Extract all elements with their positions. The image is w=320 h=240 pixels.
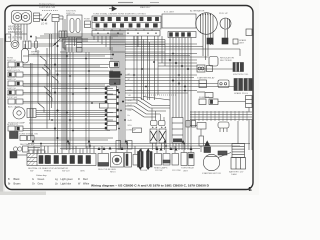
junction dot bbox=[66, 112, 68, 114]
strip drop wires bbox=[93, 36, 95, 40]
junction dot bbox=[69, 75, 71, 77]
multi connector box mid bbox=[172, 118, 183, 144]
wire bbox=[125, 77, 194, 79]
wire bbox=[23, 74, 113, 76]
wire bbox=[52, 88, 113, 90]
bus wire bbox=[36, 37, 113, 39]
wire bbox=[55, 70, 113, 72]
wire bbox=[36, 112, 113, 114]
svg-text:REGULATOR/: REGULATOR/ bbox=[220, 57, 234, 60]
row2 connector a bbox=[199, 80, 207, 88]
fuse strip b bbox=[128, 141, 133, 150]
wire bbox=[197, 91, 205, 93]
bus wire bbox=[125, 46, 203, 48]
left row connector y81 bbox=[8, 81, 15, 86]
wire vertical bbox=[49, 34, 51, 120]
wire vertical bbox=[72, 52, 74, 150]
left row connector y126 bbox=[8, 126, 15, 131]
svg-text:SW: SW bbox=[30, 171, 33, 173]
svg-text:SWITCH: SWITCH bbox=[66, 13, 75, 15]
fuse holder box bbox=[59, 31, 67, 38]
junction dot bbox=[54, 43, 56, 45]
junction dot bbox=[51, 119, 53, 121]
svg-text:IGNITION COIL: IGNITION COIL bbox=[233, 74, 249, 76]
battery case bbox=[231, 158, 246, 170]
small dark box under alternator bbox=[207, 38, 213, 44]
connector strip long bbox=[27, 154, 96, 166]
main fuse bbox=[199, 136, 204, 146]
left row connector y90 bbox=[8, 90, 15, 95]
oil pressure switch box bbox=[199, 99, 206, 105]
svg-text:14AH: 14AH bbox=[231, 173, 237, 176]
wire bbox=[23, 83, 113, 85]
diagonal wire bbox=[143, 97, 170, 101]
junction dot bbox=[169, 59, 171, 61]
box pair n4 bbox=[181, 153, 187, 166]
box rect sw bbox=[98, 154, 109, 167]
small box near border bbox=[246, 29, 252, 36]
rear drop wires bbox=[169, 38, 171, 59]
band cells dark row2 bbox=[96, 24, 99, 28]
strip cells bbox=[39, 156, 43, 164]
wire bbox=[172, 58, 174, 150]
svg-text:TURN RELAY: TURN RELAY bbox=[181, 167, 195, 170]
junction dot bbox=[116, 64, 118, 66]
junction dot bbox=[30, 36, 32, 38]
svg-text:CABLE: CABLE bbox=[31, 53, 38, 56]
harness bus lines bbox=[110, 30, 112, 86]
wire bbox=[28, 149, 44, 151]
starter cable arrow bbox=[205, 141, 210, 146]
diag jog bbox=[40, 56, 46, 65]
box n1 bbox=[155, 154, 162, 166]
svg-text:Gr: Gr bbox=[32, 182, 35, 185]
junction dot bbox=[133, 74, 135, 76]
svg-text:PRESS: PRESS bbox=[44, 171, 52, 173]
magnetic switch dark box bbox=[204, 147, 211, 153]
dimmer switch contacts bbox=[42, 13, 48, 20]
row2 connector b bbox=[218, 80, 229, 88]
starter leader line bbox=[218, 153, 231, 158]
wire bbox=[251, 120, 253, 151]
wire from battery top bbox=[237, 121, 239, 144]
dist wire bbox=[28, 143, 250, 145]
wire long left vertical b bbox=[57, 22, 59, 153]
spark plug bar a1 bbox=[138, 152, 140, 168]
box with bar bbox=[125, 153, 132, 168]
svg-text:MAIN KEY: MAIN KEY bbox=[140, 6, 151, 9]
svg-text:STARTER RELAY: STARTER RELAY bbox=[197, 77, 215, 80]
wire bbox=[125, 55, 190, 57]
spark plug bar b1 bbox=[147, 152, 149, 168]
wire bbox=[36, 116, 105, 118]
svg-text:SW 12V: SW 12V bbox=[62, 171, 70, 173]
wire vertical bbox=[88, 52, 90, 148]
starter lighting switch box bbox=[52, 15, 59, 22]
connector pin labels bbox=[126, 74, 137, 132]
junction box bbox=[197, 123, 206, 130]
bus wire bbox=[31, 41, 88, 46]
bottom row arrows bbox=[98, 147, 193, 151]
wire vertical bbox=[133, 36, 135, 100]
junction dot bbox=[145, 86, 147, 88]
svg-text:SWITCH: SWITCH bbox=[7, 60, 16, 62]
multi pin connector column bbox=[107, 86, 117, 130]
wire bbox=[23, 67, 108, 69]
left row connector y136 bbox=[20, 136, 27, 141]
coil connector b bbox=[159, 121, 166, 126]
wire bbox=[28, 147, 40, 149]
svg-text:R/W: R/W bbox=[128, 110, 132, 112]
horn body bbox=[10, 132, 19, 139]
wire bbox=[248, 120, 250, 151]
svg-text:Light blue: Light blue bbox=[61, 182, 72, 185]
svg-text:FUSE: FUSE bbox=[84, 19, 90, 21]
wire vertical bbox=[69, 52, 71, 150]
alternator circle bbox=[196, 13, 218, 35]
svg-text:Colour key: Colour key bbox=[36, 174, 47, 177]
svg-text:R: R bbox=[78, 178, 80, 181]
wire bbox=[125, 80, 199, 82]
junction dot bbox=[112, 54, 114, 56]
wire bbox=[125, 59, 197, 61]
svg-text:Y/R: Y/R bbox=[128, 95, 132, 97]
diag jog bbox=[44, 87, 50, 95]
bus wire bbox=[62, 16, 64, 44]
diagram border frame bbox=[5, 6, 253, 190]
wire bbox=[23, 65, 100, 67]
small connector row3 bbox=[205, 93, 213, 98]
svg-text:White: White bbox=[83, 182, 90, 185]
wire vertical bbox=[66, 52, 68, 150]
junction dot bbox=[126, 143, 128, 145]
junction dot bbox=[114, 83, 116, 85]
wire bbox=[34, 137, 113, 139]
junction dot bbox=[172, 80, 174, 82]
alternator windings bbox=[200, 15, 202, 33]
wire bbox=[34, 139, 108, 141]
svg-text:CONTROL SW: CONTROL SW bbox=[39, 6, 56, 9]
diag jog bbox=[44, 65, 50, 75]
junction dot bbox=[89, 145, 91, 147]
headlight drop wires bbox=[14, 24, 16, 40]
svg-text:Wiring diagram – US CB650 C-A: Wiring diagram – US CB650 C-A and US 197… bbox=[91, 184, 210, 188]
svg-text:SWITCH 12V: SWITCH 12V bbox=[7, 70, 21, 72]
wire bbox=[184, 58, 186, 150]
bottom scan shadow bbox=[0, 192, 46, 196]
box n3 bbox=[172, 154, 179, 166]
junction dot bbox=[57, 74, 59, 76]
wire bbox=[181, 58, 183, 150]
top right labels bbox=[190, 10, 247, 45]
wire bbox=[169, 58, 171, 150]
svg-text:SPARK PLUG: SPARK PLUG bbox=[234, 92, 248, 95]
diag jog bbox=[38, 103, 44, 113]
small fuse box bbox=[85, 21, 91, 28]
wire bbox=[125, 83, 218, 85]
wire bbox=[23, 128, 113, 130]
junction dot bbox=[120, 74, 122, 76]
bus wire bbox=[65, 46, 113, 50]
pin squares bbox=[105, 87, 107, 90]
svg-text:PICK UP: PICK UP bbox=[219, 13, 228, 15]
wire down right bbox=[248, 108, 250, 113]
bus wire bbox=[64, 41, 165, 43]
bus wire bbox=[63, 44, 113, 48]
dotted wire bbox=[145, 94, 176, 96]
junction dot bbox=[91, 102, 93, 104]
svg-text:12V 5W: 12V 5W bbox=[155, 170, 162, 172]
fuse holder below ignition bbox=[77, 38, 83, 52]
headlight shell bbox=[12, 11, 32, 25]
top middle labels bbox=[66, 6, 175, 21]
svg-text:Brown: Brown bbox=[14, 182, 22, 185]
wire bbox=[29, 122, 108, 124]
junction dot bbox=[187, 68, 189, 70]
alternator drop wires bbox=[202, 34, 204, 56]
coil connector a bbox=[151, 121, 158, 126]
bus wire bbox=[239, 49, 241, 56]
small box at left border bbox=[6, 34, 11, 42]
headlight bulb left bbox=[13, 13, 22, 22]
svg-text:DIMMER SW: DIMMER SW bbox=[8, 31, 23, 34]
svg-text:Black: Black bbox=[14, 178, 21, 181]
wire bbox=[23, 75, 113, 77]
svg-text:CONN 12P: CONN 12P bbox=[126, 130, 137, 132]
svg-text:ALTERNATOR: ALTERNATOR bbox=[190, 10, 205, 13]
junction dot bbox=[122, 101, 124, 103]
wire bbox=[125, 92, 188, 94]
svg-text:AUX. LAMP: AUX. LAMP bbox=[8, 106, 20, 109]
junction dot bbox=[40, 143, 42, 145]
box n2 with band bbox=[163, 154, 170, 166]
wire bbox=[175, 58, 177, 150]
diag jog bbox=[46, 93, 52, 102]
bottom right labels bbox=[202, 171, 244, 177]
wire bbox=[218, 101, 246, 103]
junction dot bbox=[88, 70, 90, 72]
connector dark box B bbox=[110, 79, 121, 85]
dimmer switch dashed link bbox=[42, 10, 58, 12]
front brake switch blob bbox=[10, 152, 17, 159]
junction dot bbox=[68, 143, 70, 145]
svg-text:TURN SIGNAL SW: TURN SIGNAL SW bbox=[19, 133, 39, 136]
bus wire bbox=[62, 39, 165, 41]
auxiliary lamp bbox=[13, 107, 25, 119]
junction dot bbox=[54, 64, 56, 66]
small dark box under pickup bbox=[222, 38, 228, 44]
pickup drop wires bbox=[224, 29, 226, 38]
left row connector y72 bbox=[8, 72, 15, 77]
svg-text:PLUGS: PLUGS bbox=[140, 170, 148, 172]
headlight sub wires bbox=[15, 33, 27, 35]
plus marks bbox=[152, 127, 166, 129]
small fuse box above column bbox=[110, 62, 120, 68]
wire bbox=[23, 101, 113, 103]
svg-text:UNIT: UNIT bbox=[183, 171, 189, 173]
svg-text:Br: Br bbox=[8, 182, 11, 185]
extra jog wire bbox=[125, 98, 170, 106]
headlight connector block bbox=[34, 13, 40, 22]
coil lead wires bbox=[152, 108, 164, 121]
spark unit small block bbox=[233, 39, 238, 44]
junction dot bbox=[153, 61, 155, 63]
wire long left vertical a bbox=[54, 22, 56, 153]
starter relay w circles bbox=[197, 65, 205, 72]
wire bbox=[125, 74, 197, 76]
svg-text:RECTIFIER: RECTIFIER bbox=[220, 60, 232, 62]
wire bbox=[125, 56, 209, 58]
starter label box bbox=[218, 151, 227, 155]
speedo capsule bbox=[22, 49, 29, 64]
spark plug bar b2 bbox=[150, 152, 152, 168]
junction dot bbox=[181, 65, 183, 67]
plug arrows bbox=[138, 149, 150, 152]
coil body a bbox=[150, 129, 157, 143]
wire bbox=[29, 119, 113, 121]
wire vertical bbox=[51, 34, 53, 108]
bus wire bbox=[64, 19, 66, 46]
connector dark box A bbox=[110, 72, 121, 78]
scan smudge top 2 bbox=[150, 2, 159, 4]
spark plug bar a2 bbox=[141, 152, 143, 168]
small box pair right bbox=[186, 121, 190, 128]
bottom row labels bbox=[28, 167, 195, 174]
junction dot bbox=[69, 119, 71, 121]
wire bbox=[158, 65, 197, 67]
bus wire bbox=[31, 39, 88, 44]
wire vertical bbox=[37, 50, 39, 103]
junction dot bbox=[85, 88, 87, 90]
right labels bbox=[197, 57, 249, 100]
wire bbox=[190, 58, 192, 150]
tiny label box bbox=[133, 128, 142, 133]
sub strip below band bbox=[92, 31, 160, 37]
dist wire bbox=[28, 145, 240, 147]
band cells dark row1 bbox=[94, 17, 97, 21]
junction dot bbox=[172, 53, 174, 55]
left row connector y62 bbox=[8, 62, 15, 67]
ignition coil 1 dark cylinder bbox=[233, 63, 244, 72]
tail light unit box bbox=[162, 14, 196, 28]
small box bbox=[207, 66, 213, 72]
pickup circle bbox=[220, 18, 231, 29]
battery plates bbox=[232, 144, 245, 158]
svg-text:FR. R. TURN: FR. R. TURN bbox=[8, 37, 22, 40]
coil body b bbox=[159, 129, 166, 143]
junction dot bbox=[57, 45, 59, 47]
relay small box bbox=[100, 103, 109, 108]
scan smudge top bbox=[118, 2, 133, 4]
flasher relay circles bbox=[13, 147, 17, 151]
bus junction dots bbox=[118, 92, 120, 94]
switch band outline bbox=[92, 16, 161, 29]
svg-text:FUSE 30A: FUSE 30A bbox=[199, 96, 210, 99]
dist wire bbox=[60, 148, 200, 150]
svg-text:STOP SW: STOP SW bbox=[7, 97, 18, 99]
step drops to right bbox=[133, 36, 135, 45]
svg-text:HORN 12V: HORN 12V bbox=[7, 124, 18, 126]
wire bbox=[36, 114, 108, 116]
headlight bulb right bbox=[21, 13, 30, 22]
band-to-strip drop wires bbox=[95, 29, 97, 31]
starter motor circle bbox=[203, 154, 219, 170]
ignition drop wires bbox=[68, 37, 70, 52]
wire bbox=[46, 48, 48, 120]
wire bbox=[23, 130, 110, 132]
wire bbox=[23, 86, 110, 88]
junction dot bbox=[54, 128, 56, 130]
fuse strip a bbox=[116, 141, 121, 150]
svg-text:UNIT: UNIT bbox=[239, 43, 245, 45]
wire bbox=[125, 53, 197, 55]
wire bbox=[23, 102, 108, 104]
svg-text:Green: Green bbox=[38, 178, 45, 181]
clutch diode tall box bbox=[246, 96, 253, 108]
drop to components bbox=[34, 144, 191, 155]
bus wire bbox=[125, 48, 240, 50]
svg-text:W/G: W/G bbox=[128, 125, 132, 127]
ground arrows bbox=[32, 140, 185, 143]
svg-text:Bu/O: Bu/O bbox=[128, 105, 133, 107]
svg-text:SPARK: SPARK bbox=[239, 39, 247, 42]
left row connector y99 bbox=[8, 99, 15, 104]
wire bbox=[178, 58, 180, 150]
diag jog bbox=[52, 76, 58, 84]
junction dot bbox=[57, 110, 59, 112]
svg-text:G: G bbox=[32, 178, 34, 181]
wire bbox=[23, 92, 113, 94]
junction dot bbox=[175, 62, 177, 64]
wire bbox=[187, 58, 189, 150]
svg-text:G/W: G/W bbox=[128, 100, 132, 102]
rounded relay right bbox=[218, 122, 229, 128]
svg-text:Light green: Light green bbox=[61, 178, 74, 181]
key arrow bbox=[112, 7, 117, 11]
turn signal connector bbox=[23, 41, 31, 49]
vertical pair bbox=[30, 63, 32, 140]
svg-text:GEN: GEN bbox=[80, 171, 85, 173]
wire bbox=[190, 125, 197, 127]
svg-text:STARTER MOTOR: STARTER MOTOR bbox=[202, 172, 221, 175]
wires headlight to switch bbox=[40, 14, 43, 16]
junction dot bbox=[57, 137, 59, 139]
wire bbox=[23, 93, 113, 95]
svg-text:Red: Red bbox=[83, 178, 88, 181]
wire bbox=[125, 68, 233, 70]
junction dot bbox=[183, 143, 185, 145]
junction dot bbox=[141, 68, 143, 70]
svg-text:Gr/B: Gr/B bbox=[128, 120, 133, 122]
wire vertical bbox=[85, 52, 87, 148]
diagonal jog wires bbox=[125, 100, 170, 108]
junction dot bbox=[72, 130, 74, 132]
page background bbox=[0, 0, 259, 195]
extra jog wire bbox=[125, 109, 156, 117]
junction dot bbox=[85, 58, 87, 60]
junction dot bbox=[184, 90, 186, 92]
junction dot bbox=[178, 74, 180, 76]
bus wire crossing to right bbox=[125, 43, 197, 45]
wire bbox=[23, 64, 113, 66]
svg-text:LO HI: LO HI bbox=[41, 23, 48, 26]
bus wire bbox=[44, 33, 123, 35]
ignition coil 3 dark cylinder bbox=[244, 79, 252, 91]
wire bbox=[158, 62, 197, 64]
regulator rectifier box bbox=[209, 57, 218, 67]
left column tiny labels bbox=[7, 52, 40, 146]
svg-text:SWITCH: SWITCH bbox=[7, 88, 16, 90]
